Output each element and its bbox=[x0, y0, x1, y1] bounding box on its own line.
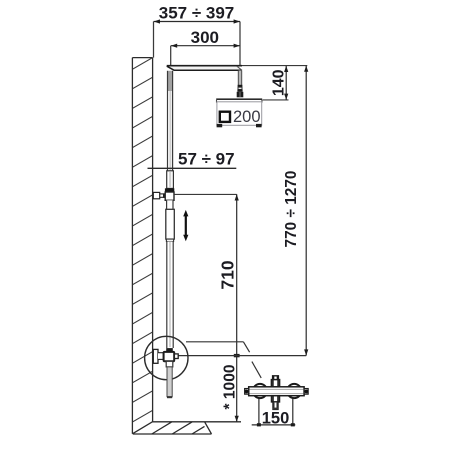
svg-text:357 ÷ 397: 357 ÷ 397 bbox=[159, 4, 235, 23]
svg-text:770 ÷ 1270: 770 ÷ 1270 bbox=[283, 171, 300, 248]
svg-text:300: 300 bbox=[191, 28, 219, 47]
svg-text:140: 140 bbox=[270, 69, 287, 96]
svg-text:* 1000: * 1000 bbox=[221, 364, 238, 409]
svg-text:200: 200 bbox=[233, 108, 261, 126]
svg-text:150: 150 bbox=[262, 410, 290, 428]
svg-text:710: 710 bbox=[218, 260, 238, 289]
svg-text:57 ÷ 97: 57 ÷ 97 bbox=[178, 150, 235, 169]
